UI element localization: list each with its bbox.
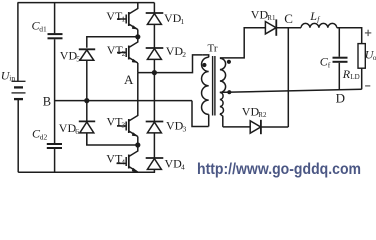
svg-text:4: 4 <box>181 162 185 171</box>
wire Cf bottom leg <box>338 63 340 90</box>
battery Uin <box>12 81 26 99</box>
node VT1-VT2 junction dot <box>135 34 140 39</box>
svg-text:Tr: Tr <box>208 43 218 55</box>
svg-text:3: 3 <box>183 124 187 133</box>
capacitor Cd1 <box>48 34 63 38</box>
svg-text:R: R <box>342 67 351 81</box>
svg-text:2: 2 <box>122 49 126 58</box>
svg-text:1: 1 <box>181 17 185 26</box>
label VD5 <box>60 49 81 64</box>
wire Cf top leg <box>338 28 340 57</box>
wire secondary bottom lead <box>223 126 250 128</box>
transistor VT3 <box>117 119 138 137</box>
diode VD6 <box>79 121 95 132</box>
node A junction dot <box>152 70 157 75</box>
diode VD4 <box>146 158 164 169</box>
diode VDR2 <box>250 120 261 134</box>
svg-text:R2: R2 <box>258 111 267 119</box>
svg-text:f: f <box>328 60 331 69</box>
diode VD3 <box>146 122 164 133</box>
wire VD2 to VD3 <box>153 59 155 121</box>
transformer Tr primary winding <box>202 55 209 127</box>
svg-text:C: C <box>284 11 293 26</box>
inductor Lf <box>301 23 337 27</box>
svg-text:VD: VD <box>166 44 184 58</box>
label VD3 <box>166 119 187 134</box>
svg-text:5: 5 <box>76 54 80 63</box>
node primary polarity dot <box>202 63 206 67</box>
label VDR2 <box>242 105 267 120</box>
label VT4 <box>106 152 125 167</box>
diode VDR1 <box>265 19 276 35</box>
label VT1 <box>106 9 125 24</box>
wire VT1 emitter to junction <box>137 30 139 37</box>
node secondary top polarity dot <box>227 60 231 64</box>
svg-text:2: 2 <box>182 50 186 59</box>
wire VT2 collector <box>129 37 138 48</box>
wire node B to VD6 <box>86 101 88 122</box>
resistor RLD <box>358 44 365 69</box>
label VD4 <box>165 157 186 172</box>
svg-text:in: in <box>9 73 15 82</box>
svg-text:4: 4 <box>121 157 125 166</box>
label Lf <box>309 9 320 24</box>
wire VDR1 cathode to Lf <box>276 27 301 29</box>
wire junction to VD6 <box>87 134 138 145</box>
label VT3 <box>107 115 126 130</box>
wire left rail upper <box>17 3 19 82</box>
label VD6 <box>59 121 80 136</box>
wire VD3 to VD4 <box>153 133 155 158</box>
wire output return rail D <box>220 89 362 92</box>
wire Lf to right rail <box>337 28 362 44</box>
label Cd2 <box>32 127 48 142</box>
node VT3-VT4 junction dot <box>135 142 140 147</box>
label VD1 <box>164 11 185 26</box>
svg-text:3: 3 <box>121 120 125 129</box>
minus sign <box>365 85 370 87</box>
diode VD5 <box>79 49 95 60</box>
transistor VT2 <box>117 46 138 64</box>
transformer Tr secondary winding <box>220 58 226 127</box>
svg-text:6: 6 <box>75 127 79 136</box>
wire VD1 to VD2 <box>153 24 155 48</box>
label VT2 <box>107 43 126 58</box>
svg-text:VD: VD <box>251 8 269 22</box>
svg-text:VD: VD <box>60 49 78 63</box>
wire capacitor column upper <box>54 3 56 34</box>
label Cd1 <box>32 19 48 34</box>
svg-text:VD: VD <box>166 119 184 133</box>
wire VD6 anode <box>86 133 88 145</box>
node B junction dot <box>84 98 89 103</box>
svg-text:LD: LD <box>350 73 359 81</box>
transistor VT1 <box>117 12 138 30</box>
label VDR1 <box>251 8 276 23</box>
wire capacitor column middle <box>54 39 56 143</box>
svg-text:1: 1 <box>121 15 125 24</box>
label RLD <box>342 67 360 81</box>
wire node A horizontal <box>138 55 202 73</box>
diode VD2 <box>146 48 164 59</box>
wire B riser to primary <box>192 101 209 127</box>
wire capacitor column lower <box>54 149 56 172</box>
wire VT3 emitter to junction <box>137 137 139 146</box>
svg-text:L: L <box>309 9 317 23</box>
svg-text:VD: VD <box>59 121 77 135</box>
label Cf <box>320 55 331 70</box>
svg-text:D: D <box>336 91 345 106</box>
svg-text:A: A <box>124 72 134 87</box>
svg-text:d1: d1 <box>39 24 47 33</box>
capacitor Cd2 <box>47 144 62 148</box>
label Uo <box>365 47 376 62</box>
wire secondary top lead to VDR1 <box>220 28 266 58</box>
label VD2 <box>166 44 187 59</box>
wire left rail lower <box>17 99 19 172</box>
wire right rail lower <box>361 68 363 89</box>
wire VT4 collector <box>129 145 138 157</box>
svg-text:B: B <box>43 94 51 108</box>
svg-text:VD: VD <box>164 11 182 25</box>
wire VT3 collector column <box>129 73 138 121</box>
wire bottom rail <box>18 171 155 173</box>
svg-text:VD: VD <box>242 105 260 119</box>
wire junction to VD5 <box>87 37 138 48</box>
wire node B rail <box>55 100 192 102</box>
svg-text:http://www.go-gddq.com: http://www.go-gddq.com <box>197 161 361 178</box>
svg-text:VD: VD <box>165 157 183 171</box>
wire VT1 collector <box>129 3 138 14</box>
wire node C vertical to VDR2 <box>287 28 289 127</box>
wire top rail <box>18 2 155 4</box>
wire VDR2 cathode to node C leg <box>261 126 288 128</box>
node secondary mid polarity dot <box>227 90 231 94</box>
wire VD5 to node B <box>86 60 88 100</box>
wire VD4 to bottom rail <box>153 169 155 172</box>
capacitor Cf <box>333 58 348 62</box>
svg-text:R1: R1 <box>267 14 276 22</box>
svg-text:f: f <box>317 15 320 24</box>
svg-text:d2: d2 <box>40 132 48 141</box>
diode VD1 <box>146 13 164 24</box>
wire VT2 emitter to node A <box>137 63 139 73</box>
label Uin <box>1 68 16 82</box>
wire VD column top <box>153 3 155 13</box>
plus sign <box>365 30 371 36</box>
transformer core <box>213 56 215 116</box>
transistor VT4 <box>117 155 138 173</box>
